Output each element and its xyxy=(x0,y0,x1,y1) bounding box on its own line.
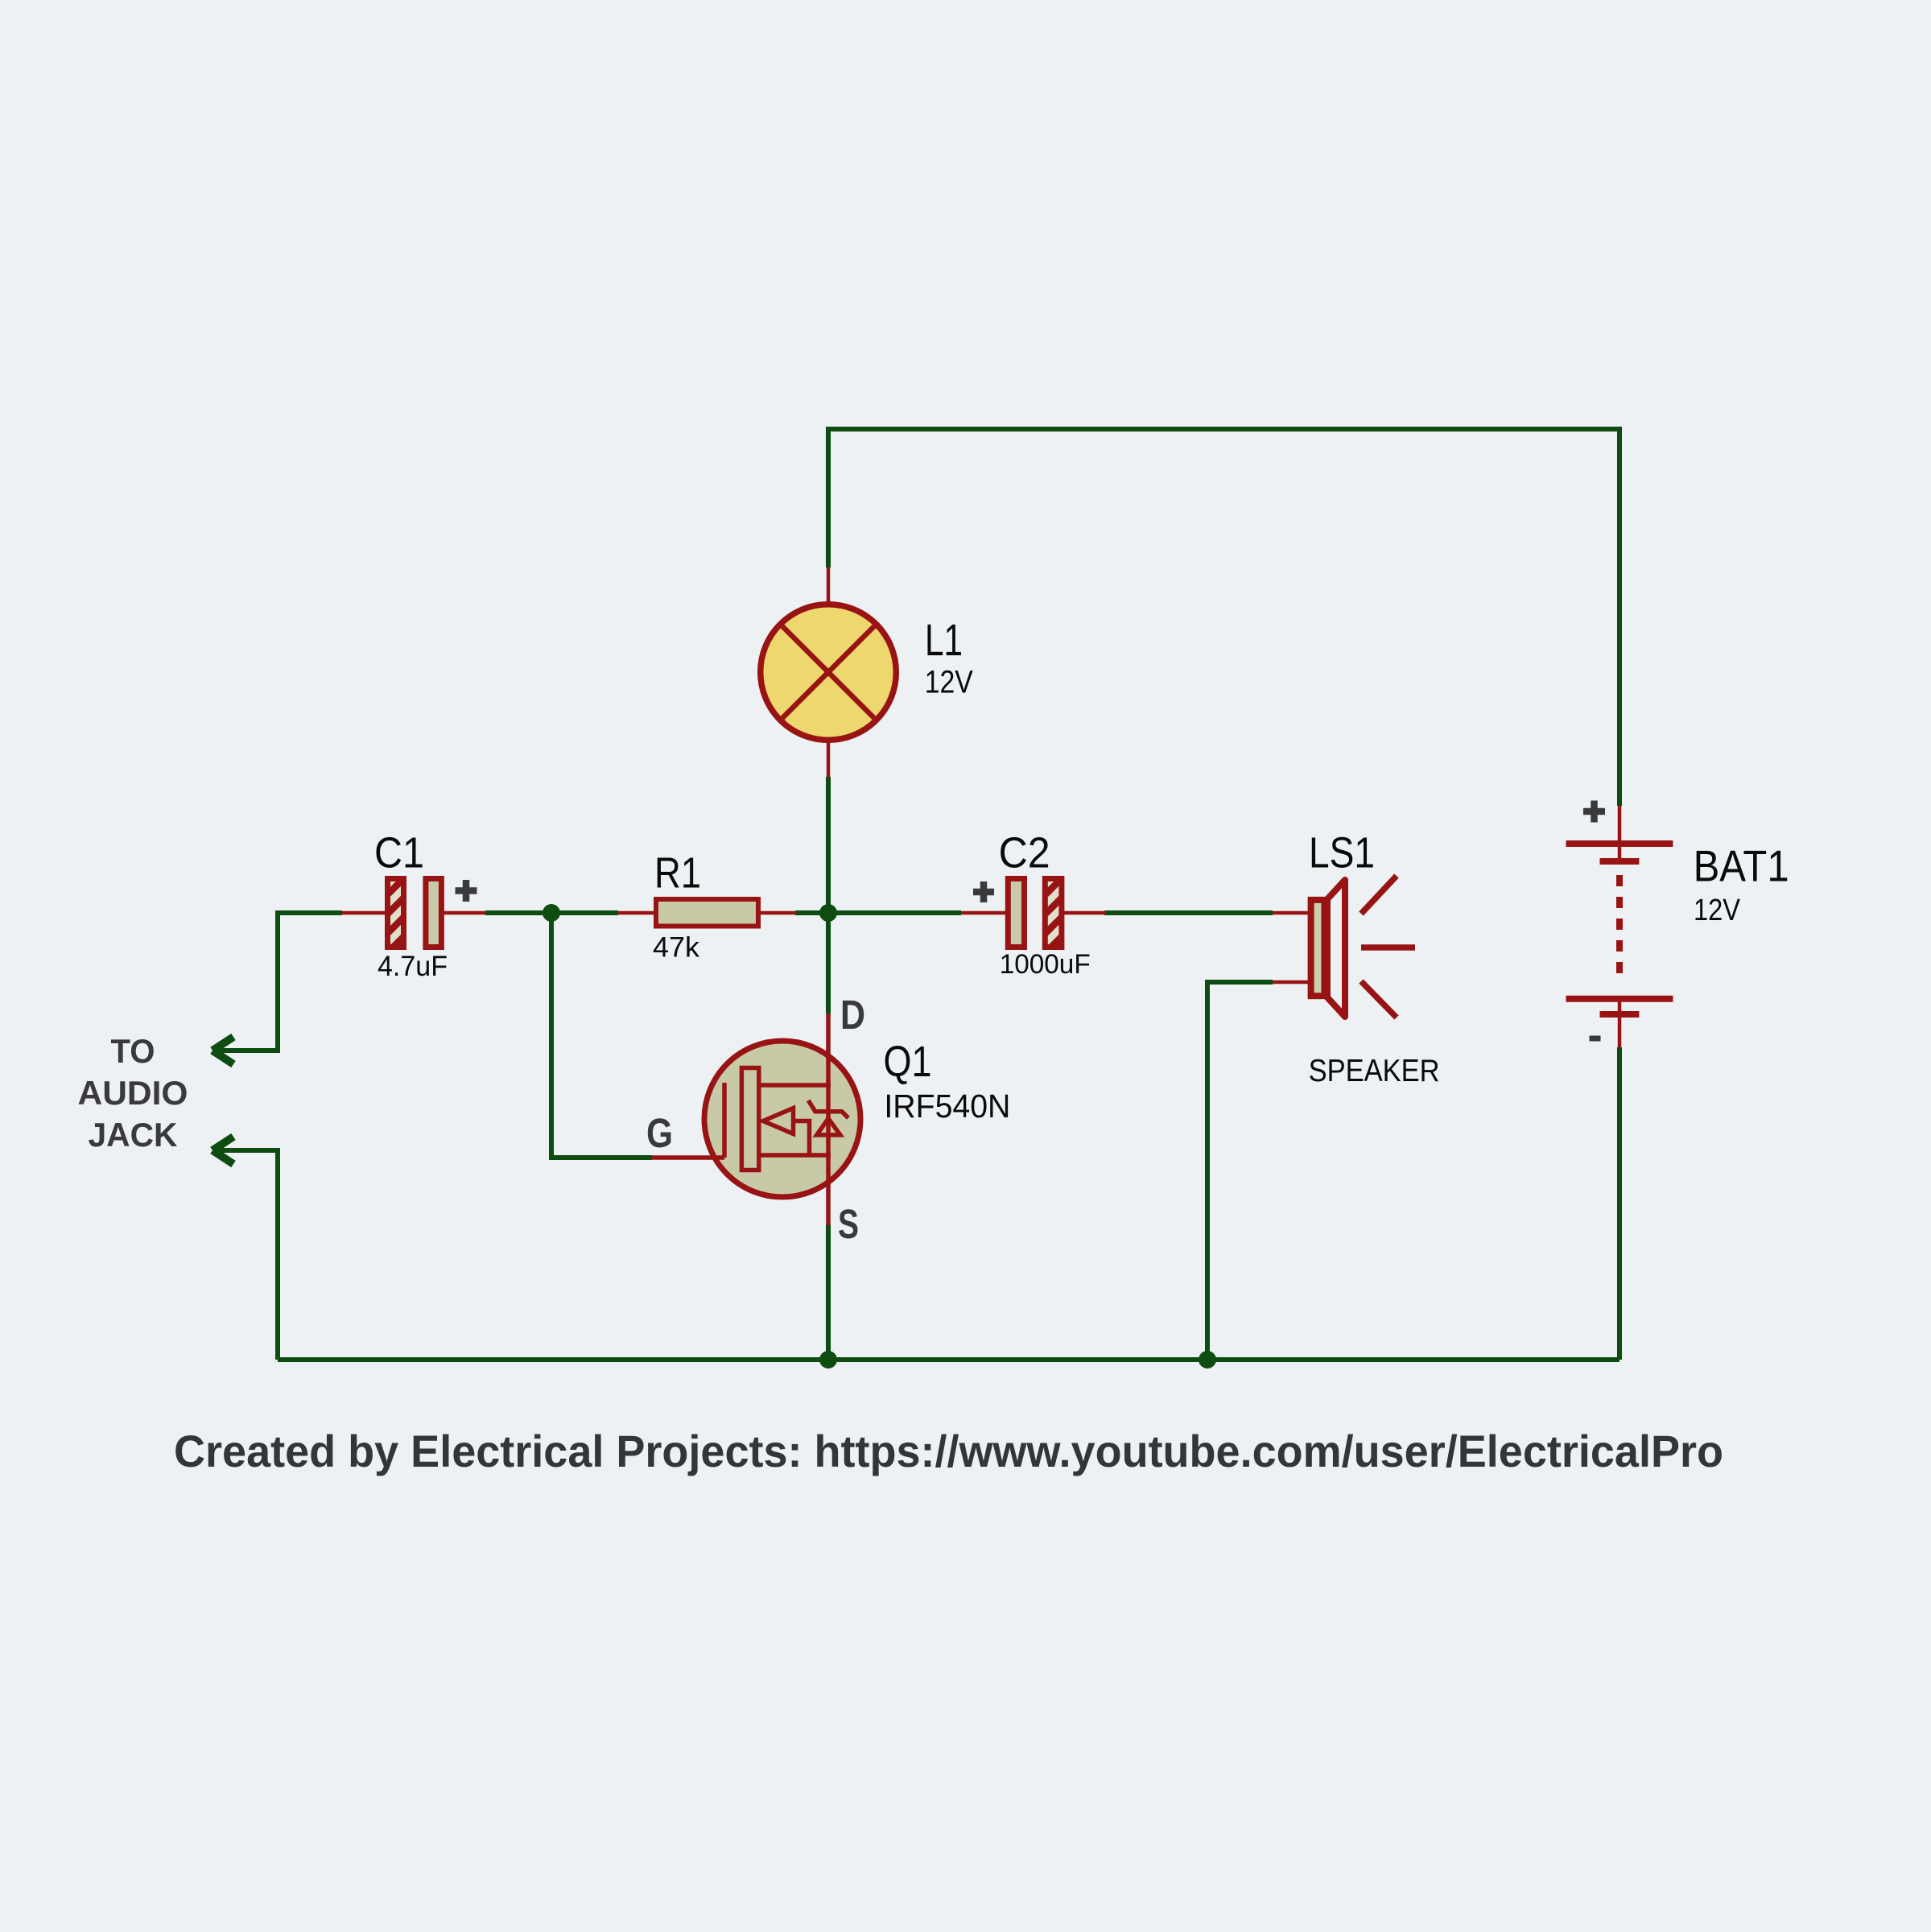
svg-text:JACK: JACK xyxy=(89,1116,178,1154)
svg-text:SPEAKER: SPEAKER xyxy=(1309,1054,1440,1088)
svg-text:L1: L1 xyxy=(925,614,963,665)
svg-text:C2: C2 xyxy=(999,828,1050,877)
svg-text:12V: 12V xyxy=(925,664,973,700)
svg-text:4.7uF: 4.7uF xyxy=(378,951,448,982)
svg-text:Created by Electrical Projects: Created by Electrical Projects: https://… xyxy=(174,1426,1723,1476)
svg-text:D: D xyxy=(840,992,865,1038)
svg-text:1000uF: 1000uF xyxy=(1000,949,1091,980)
svg-text:Q1: Q1 xyxy=(884,1038,932,1086)
svg-text:R1: R1 xyxy=(654,849,701,898)
svg-text:G: G xyxy=(646,1110,673,1156)
svg-text:C1: C1 xyxy=(374,829,424,877)
svg-text:LS1: LS1 xyxy=(1309,829,1375,877)
svg-text:IRF540N: IRF540N xyxy=(884,1088,1010,1125)
svg-text:S: S xyxy=(838,1201,859,1247)
svg-text:12V: 12V xyxy=(1694,894,1741,927)
svg-text:BAT1: BAT1 xyxy=(1694,841,1789,891)
svg-text:AUDIO: AUDIO xyxy=(78,1074,188,1112)
svg-text:TO: TO xyxy=(111,1032,155,1070)
svg-text:47k: 47k xyxy=(653,932,700,964)
